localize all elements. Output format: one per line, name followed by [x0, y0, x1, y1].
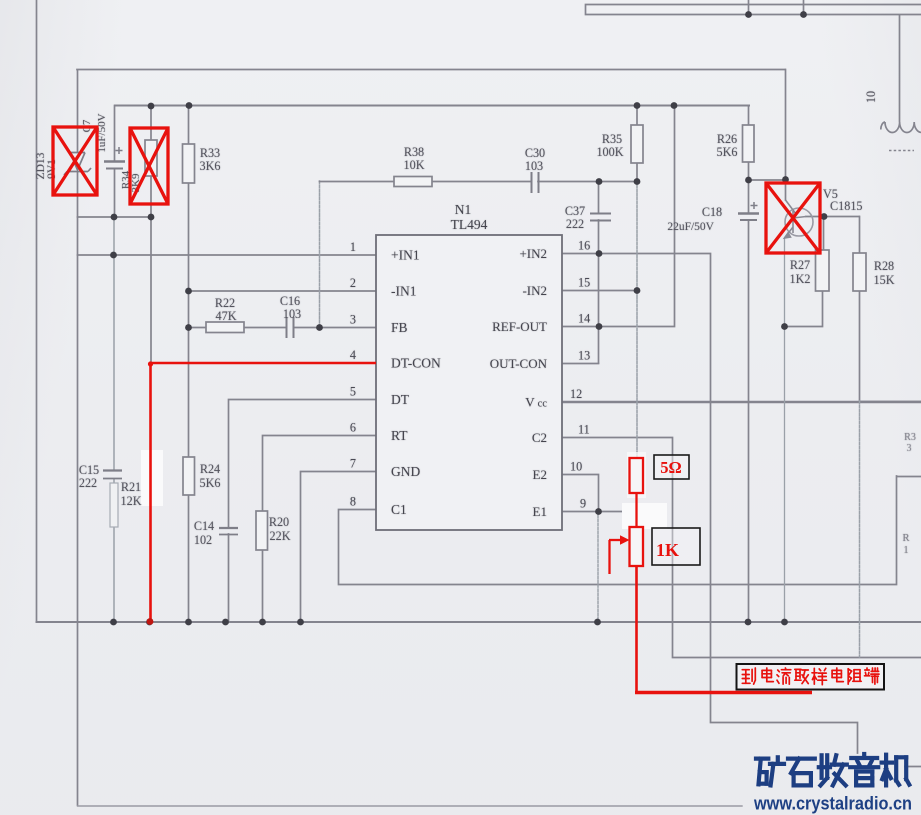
svg-text:REF-OUT: REF-OUT	[492, 319, 547, 334]
svg-text:C1815: C1815	[830, 199, 863, 213]
svg-text:22K: 22K	[270, 529, 291, 543]
svg-text:R20: R20	[269, 515, 289, 529]
svg-text:R27: R27	[790, 258, 810, 272]
svg-text:OUT-CON: OUT-CON	[490, 356, 548, 371]
wire V5 emitter branch x784 faint	[785, 179, 787, 200]
svg-text:15K: 15K	[874, 273, 895, 287]
svg-text:R: R	[902, 533, 909, 544]
wire top stub x803	[803, 0, 805, 15]
svg-text:-IN2: -IN2	[522, 283, 547, 298]
wire pin14 row and riser x674	[562, 106, 675, 327]
wire pin16 row to bottom right	[562, 254, 921, 767]
wire R27 branch x822	[785, 217, 824, 327]
svg-text:3: 3	[350, 313, 356, 327]
wire ground bus	[37, 621, 921, 623]
svg-text:N1: N1	[455, 202, 472, 217]
svg-text:1: 1	[350, 240, 356, 254]
wire C7 branch x114	[114, 106, 116, 218]
svg-text:C16: C16	[280, 294, 300, 308]
svg-text:7: 7	[350, 457, 356, 471]
svg-text:C30: C30	[525, 146, 545, 160]
wire inner box bottom edge	[78, 805, 743, 807]
label V5 C1815	[823, 187, 863, 213]
label R22 47K	[215, 296, 237, 323]
transformer winding T	[881, 15, 921, 151]
wire pin15 row	[562, 290, 637, 292]
svg-text:TL494: TL494	[451, 217, 488, 232]
red cross-out box R34	[130, 128, 168, 204]
resistor R35	[631, 125, 643, 163]
svg-text:14: 14	[578, 312, 590, 326]
label R35 100K	[596, 132, 623, 159]
svg-text:www.crystalradio.cn: www.crystalradio.cn	[753, 793, 912, 814]
svg-text:C1: C1	[391, 502, 407, 517]
svg-text:100K: 100K	[596, 145, 623, 159]
label C15 222	[79, 463, 99, 490]
wire pin11 C2 row to bottom right	[562, 438, 921, 658]
label N1 TL494	[451, 202, 488, 232]
wire pin6 RT row and R20 branch	[263, 436, 377, 623]
transistor V5	[785, 200, 814, 238]
IC right pin names	[490, 246, 548, 519]
label R21 12K	[121, 480, 142, 508]
wire pin1 row	[78, 254, 377, 256]
wire R38 C30 row y181	[320, 181, 638, 183]
svg-text:R21: R21	[121, 480, 141, 494]
potentiometer 1K red	[609, 527, 643, 574]
resistor R28	[853, 253, 866, 291]
label C30 103	[525, 146, 545, 173]
svg-text:8: 8	[350, 495, 356, 509]
label R33 3K6	[200, 146, 221, 173]
wire R26 C18 branch x748	[748, 106, 750, 623]
wire C37 branch x598	[598, 181, 600, 363]
wire inner box left edge	[77, 70, 79, 805]
label R28 15K	[874, 259, 895, 287]
capacitor C15	[103, 471, 122, 479]
red cross-out box V5	[766, 183, 820, 253]
capacitor C37	[590, 214, 611, 221]
wire E joint to bus faint	[597, 511, 599, 622]
svg-text:10: 10	[570, 460, 582, 474]
label edge fragment R 1	[902, 533, 909, 556]
wire FB riser x319	[319, 181, 321, 327]
wire pin7 GND row	[301, 472, 377, 623]
svg-text:R22: R22	[215, 296, 235, 310]
label R34 3K9	[120, 170, 142, 192]
resistor R24	[183, 457, 195, 495]
svg-text:FB: FB	[391, 320, 408, 335]
label edge fragment R3	[904, 432, 916, 454]
resistor R26	[743, 125, 755, 162]
svg-text:222: 222	[79, 476, 97, 490]
wire pin9 E1 row	[562, 511, 624, 513]
capacitor C30	[532, 172, 539, 193]
component value labels	[35, 91, 916, 556]
capacitor C14	[219, 528, 238, 535]
svg-text:10K: 10K	[404, 158, 425, 172]
label C18 22uF/50V	[667, 205, 722, 233]
wire red 5ohm to pot	[635, 493, 637, 527]
svg-text:E2: E2	[533, 467, 547, 482]
svg-text:12K: 12K	[121, 494, 142, 508]
svg-text:222: 222	[566, 217, 584, 231]
label C7 1uF/50V	[81, 113, 108, 152]
svg-text:-IN1: -IN1	[391, 284, 417, 299]
white correction patch near E1	[622, 503, 667, 529]
wire outer left vertical	[36, 0, 38, 622]
wire top stub x748	[748, 0, 750, 15]
label R20 22K	[269, 515, 291, 543]
svg-text:R24: R24	[200, 462, 220, 476]
wire pin10 E2 row	[562, 475, 599, 512]
red wire DT-CON pin4 mod	[147, 361, 376, 624]
svg-text:E1: E1	[533, 504, 547, 519]
wire divider to 5ohm faint x637	[636, 181, 638, 458]
wire R35 divider branch x637	[636, 106, 638, 182]
capacitor C7	[104, 147, 125, 169]
svg-text:C14: C14	[194, 519, 214, 533]
svg-text:4: 4	[350, 348, 356, 362]
svg-text:15: 15	[578, 276, 590, 290]
svg-text:9: 9	[580, 497, 586, 511]
wire top supply bus	[115, 105, 749, 107]
svg-text:1K2: 1K2	[790, 272, 811, 286]
svg-text:5Ω: 5Ω	[660, 458, 681, 477]
resistor R38	[394, 177, 432, 187]
label C14 102	[194, 519, 214, 547]
red cross-out box ZD13	[53, 127, 97, 195]
resistor 5 ohm red	[630, 458, 644, 493]
resistor R22	[206, 322, 244, 333]
resistor R34	[145, 140, 157, 176]
label R26 5K6	[717, 132, 738, 159]
svg-text:RT: RT	[391, 428, 408, 443]
svg-text:DT: DT	[391, 392, 410, 407]
wire pin13 row	[562, 363, 599, 365]
watermark crystalradio logo text	[756, 754, 909, 785]
svg-text:12: 12	[570, 387, 582, 401]
wire inner box top edge	[77, 69, 785, 71]
wire pin5 DT row and C14 branch	[229, 400, 377, 623]
svg-text:11: 11	[578, 423, 590, 437]
svg-text:102: 102	[194, 533, 212, 547]
svg-text:3: 3	[907, 443, 912, 454]
zener diode ZD13	[64, 153, 91, 176]
IC left pin numbers	[350, 240, 356, 509]
white correction patch left	[141, 450, 163, 506]
wire pin2 row	[189, 290, 377, 292]
svg-text:5K6: 5K6	[200, 476, 221, 490]
wire node y180 right	[748, 179, 786, 181]
svg-text:3K6: 3K6	[200, 159, 221, 173]
svg-text:R28: R28	[874, 259, 894, 273]
wire R33 R24 branch x188	[188, 106, 190, 623]
resistor R27	[816, 250, 830, 291]
label C37 222	[565, 204, 585, 231]
svg-text:1K: 1K	[656, 540, 679, 560]
svg-text:1: 1	[903, 545, 908, 556]
svg-text:5K6: 5K6	[717, 145, 738, 159]
svg-text:C15: C15	[79, 463, 99, 477]
svg-text:DT-CON: DT-CON	[391, 356, 441, 371]
svg-text:16: 16	[578, 239, 590, 253]
label R24 5K6	[200, 462, 221, 490]
label ZD13 9V1	[35, 152, 58, 179]
label box 1K	[652, 528, 700, 565]
label box to current sampling resistor (Chinese)	[737, 664, 885, 690]
resistor R20	[256, 511, 268, 550]
svg-text:+IN2: +IN2	[519, 246, 547, 261]
svg-text:R35: R35	[602, 132, 622, 146]
label R38 10K	[404, 145, 425, 172]
label C16 103	[280, 294, 301, 321]
wire R34 branch x151	[150, 106, 152, 365]
svg-text:R38: R38	[404, 145, 424, 159]
wire pin8 C1 row to right bus y584	[339, 476, 921, 585]
svg-text:+IN1: +IN1	[391, 248, 420, 263]
svg-text:R26: R26	[717, 132, 737, 146]
capacitor C16	[287, 317, 294, 338]
svg-text:C37: C37	[565, 204, 585, 218]
svg-text:13: 13	[578, 349, 590, 363]
wire x114 lower C15 R21 branch	[113, 217, 115, 622]
wire inner box right edge	[785, 70, 787, 180]
svg-text:103: 103	[283, 307, 301, 321]
resistor R33	[183, 144, 195, 183]
svg-text:C2: C2	[532, 430, 547, 445]
svg-text:10: 10	[864, 91, 878, 103]
svg-text:R33: R33	[200, 146, 220, 160]
svg-text:5: 5	[350, 385, 356, 399]
wire node row y217	[78, 216, 152, 218]
svg-text:R3: R3	[904, 432, 916, 443]
resistor R21	[110, 483, 118, 527]
label R27 1K2	[790, 258, 811, 286]
wire red pot to sampling resistor	[635, 566, 812, 693]
wire top frame y4 y14	[586, 5, 921, 15]
label box 5 ohm	[654, 455, 689, 479]
wire V5 collector row y216	[806, 216, 859, 218]
wire R28 branch x859	[860, 217, 921, 402]
IC right pin numbers	[570, 239, 590, 511]
svg-text:2: 2	[350, 276, 356, 290]
svg-text:22uF/50V: 22uF/50V	[667, 221, 714, 233]
wire pin3 row with R22 C16	[189, 327, 377, 329]
IC left pin names	[391, 248, 441, 518]
op-amp U1 IC box N1 TL494	[376, 235, 562, 530]
svg-text:GND: GND	[391, 464, 420, 479]
svg-text:C18: C18	[702, 205, 722, 219]
svg-text:47K: 47K	[216, 309, 237, 323]
svg-text:103: 103	[525, 159, 543, 173]
capacitor C18	[738, 202, 759, 220]
wire R28 lower faint x859	[859, 401, 861, 657]
svg-text:6: 6	[350, 421, 356, 435]
wire pin12 Vcc row	[562, 401, 921, 403]
